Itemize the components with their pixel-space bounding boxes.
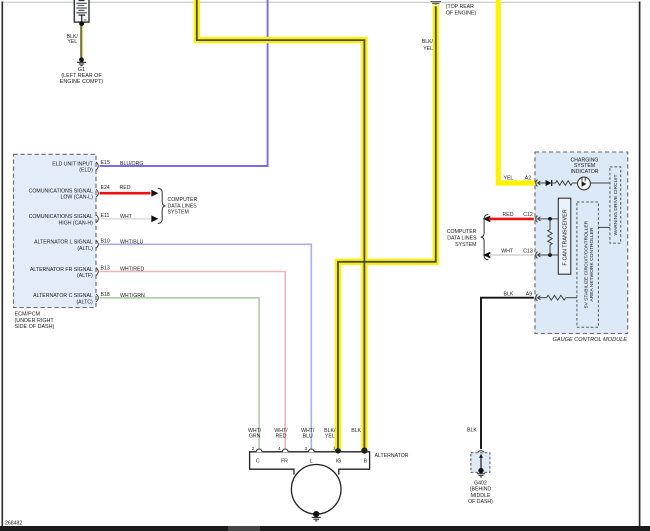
pin B13 (alternator FR signal)	[30, 266, 145, 280]
junction dot at alternator IG pin	[335, 448, 340, 453]
5V stabilizer / CAN controller box	[577, 202, 599, 327]
svg-text:C13: C13	[523, 249, 533, 255]
highlighted wire BLK/YEL: top ground down, left, to alternator IG pin (yellow highlight band)	[338, 4, 436, 450]
svg-text:WHT/BLU: WHT/BLU	[120, 239, 144, 245]
svg-text:ELD UNIT INPUT: ELD UNIT INPUT	[52, 161, 93, 167]
svg-text:IG: IG	[336, 459, 341, 465]
wire WHT (CAN-H) to computer data lines with arrow	[483, 252, 491, 259]
gauge control module box	[535, 152, 628, 334]
wire inside G402 box with up arrow	[480, 456, 482, 471]
svg-text:C: C	[256, 459, 260, 465]
ground G402	[477, 474, 485, 477]
svg-text:RED: RED	[503, 212, 514, 218]
alternator circle	[291, 465, 341, 515]
PART: alternator	[248, 428, 409, 521]
connector bump B	[361, 449, 367, 452]
PART: gauge	[447, 152, 628, 449]
resistor (A9 ground path)	[547, 295, 566, 300]
svg-text:DATA LINES: DATA LINES	[447, 236, 477, 242]
svg-text:B13: B13	[101, 266, 110, 272]
wire WHT/RED from B13 to alternator FR pin	[100, 272, 286, 451]
ground G402 dot	[478, 468, 483, 473]
svg-text:ALTERNATOR C SIGNAL: ALTERNATOR C SIGNAL	[33, 293, 93, 299]
svg-text:(ALTF): (ALTF)	[77, 273, 93, 279]
svg-text:B18: B18	[101, 292, 110, 298]
svg-text:G402: G402	[474, 480, 487, 486]
junction dot at alternator B pin	[361, 448, 367, 454]
PART: highlight	[197, 0, 535, 454]
PART: ecm	[14, 154, 198, 330]
svg-text:COMPUTER: COMPUTER	[447, 229, 477, 235]
svg-text:2: 2	[252, 446, 255, 451]
resistor (indicator series)	[556, 181, 573, 186]
highlighted wire YEL: top edge down to gauge module pin A2 (yellow highlight band)	[498, 0, 534, 183]
page left border	[1, 2, 3, 527]
wire BLK/YEL core (IG path)	[338, 4, 436, 449]
svg-text:E15: E15	[101, 160, 110, 166]
svg-text:DATA LINES: DATA LINES	[168, 203, 198, 209]
svg-text:G1: G1	[78, 67, 85, 73]
page bottom black bar	[0, 526, 650, 531]
svg-text:WARNING DRIVE CIRCUIT: WARNING DRIVE CIRCUIT	[613, 175, 619, 236]
pin C12 connector	[536, 216, 538, 223]
svg-text:BLK/: BLK/	[422, 39, 434, 45]
wire BLK core (B path)	[197, 0, 365, 449]
junction dot C12 row	[548, 217, 552, 221]
pin C13 connector	[536, 252, 538, 259]
svg-text:WHT/GRN: WHT/GRN	[120, 293, 145, 299]
pin A9 connector	[536, 294, 538, 301]
svg-text:268482: 268482	[5, 521, 22, 527]
wire WHT/GRN from B18 to alternator C pin	[100, 298, 260, 450]
alternator case ground dot	[313, 511, 319, 517]
G402 connector box	[471, 453, 490, 473]
warning drive circuit box	[610, 167, 621, 243]
pin B10 (alternator L signal)	[34, 238, 143, 252]
ECM/PCM module box	[14, 154, 97, 307]
ground G1	[79, 57, 84, 62]
connector notch on BLK/YEL wire below top ground	[433, 5, 439, 7]
pin E15 (ELD unit input)	[52, 160, 143, 174]
page right border	[639, 2, 641, 527]
svg-text:5V STABILIZE CIRCUIT/CONTROLLE: 5V STABILIZE CIRCUIT/CONTROLLER	[584, 220, 590, 308]
alternator case ground	[312, 517, 321, 521]
svg-text:BLK: BLK	[504, 292, 514, 298]
svg-text:ENGINE COMPT): ENGINE COMPT)	[60, 79, 104, 85]
F-CAN transceiver box	[558, 198, 571, 274]
svg-text:GAUGE CONTROL MODULE: GAUGE CONTROL MODULE	[553, 337, 628, 343]
PART: g402	[446, 4, 493, 505]
svg-text:YEL: YEL	[325, 433, 335, 439]
wire WHT/BLU from B10 to alternator L pin	[100, 244, 312, 450]
connector bump FR	[282, 449, 288, 452]
link 5V box to warning drive circuit	[598, 226, 610, 228]
svg-text:C12: C12	[523, 212, 533, 218]
svg-text:(ELD): (ELD)	[79, 168, 93, 174]
svg-text:BLU/ORG: BLU/ORG	[120, 161, 143, 167]
svg-text:FR: FR	[281, 459, 288, 465]
svg-text:WHT: WHT	[501, 249, 514, 255]
connector bump L	[308, 449, 314, 452]
svg-text:BLU: BLU	[303, 433, 313, 439]
computer data lines system brace (left)	[158, 188, 166, 223]
svg-text:BLK: BLK	[351, 428, 361, 434]
svg-text:ALTERNATOR: ALTERNATOR	[375, 453, 409, 459]
alternator box	[250, 452, 370, 475]
svg-text:F-CAN TRANSCEIVER: F-CAN TRANSCEIVER	[562, 209, 568, 265]
svg-text:YEL: YEL	[504, 176, 514, 182]
svg-text:MIDDLE: MIDDLE	[471, 493, 491, 499]
svg-text:RED: RED	[276, 433, 287, 439]
svg-text:(UNDER RIGHT: (UNDER RIGHT	[15, 318, 55, 324]
fuse symbol inside box	[79, 14, 86, 16]
svg-text:AREA NETWORK CONTROLLER: AREA NETWORK CONTROLLER	[589, 227, 595, 302]
connector at G402	[478, 451, 484, 453]
svg-text:E24: E24	[101, 185, 110, 191]
svg-text:SIDE OF DASH): SIDE OF DASH)	[15, 324, 55, 330]
wire RED (CAN-L) to computer data lines with arrow	[483, 216, 491, 223]
svg-text:BLK: BLK	[467, 428, 477, 434]
ground at top rear of engine (for BLK/YEL wire)	[431, 2, 441, 4]
svg-text:L: L	[310, 459, 313, 465]
computer data lines system brace (right)	[481, 215, 489, 260]
svg-text:HIGH (CAN-H): HIGH (CAN-H)	[59, 220, 94, 226]
svg-text:ECM/PCM: ECM/PCM	[15, 312, 41, 318]
charging indicator lamp	[578, 177, 591, 190]
svg-text:OF ENGINE): OF ENGINE)	[446, 10, 477, 16]
svg-text:YEL: YEL	[67, 39, 77, 45]
svg-text:OF DASH): OF DASH)	[468, 499, 493, 505]
svg-text:INDICATOR: INDICATOR	[570, 169, 598, 175]
svg-text:A9: A9	[526, 292, 532, 298]
svg-text:(ALTL): (ALTL)	[77, 246, 93, 252]
svg-text:LOW (CAN-L): LOW (CAN-L)	[61, 195, 94, 201]
junction dot below fuse box	[79, 21, 84, 26]
wire BLK from A9 to G402 corner	[481, 298, 534, 449]
svg-text:COMUNICATIONS SIGNAL: COMUNICATIONS SIGNAL	[29, 189, 93, 195]
svg-text:A2: A2	[525, 176, 531, 182]
page top border	[2, 1, 640, 3]
pin B18 (alternator C signal)	[33, 292, 145, 306]
svg-text:3: 3	[304, 446, 307, 451]
svg-text:B10: B10	[101, 238, 110, 244]
connector bump C	[256, 449, 262, 452]
svg-text:4: 4	[278, 446, 281, 451]
pin A2 connector	[536, 180, 538, 187]
svg-text:RED: RED	[120, 185, 131, 191]
highlighted wire BLK: alternator B pin up, left, to top edge (yellow highlight band)	[197, 0, 365, 450]
svg-text:ALTERNATOR FR SIGNAL: ALTERNATOR FR SIGNAL	[30, 267, 93, 273]
svg-text:(ALTC): (ALTC)	[76, 299, 93, 305]
svg-text:(BEHIND: (BEHIND	[470, 487, 492, 493]
resistor between C12 and C13 (CAN termination)	[548, 219, 552, 255]
svg-text:WHT/RED: WHT/RED	[120, 267, 144, 273]
PART: fusebox	[60, 0, 104, 85]
wire RED (CAN-L) with arrow to computer data lines system	[100, 192, 151, 195]
wire BLK/YEL from fuse box to ground G1	[80, 26, 82, 58]
junction dot C13 row	[548, 253, 552, 257]
svg-text:B: B	[364, 459, 368, 465]
svg-text:GRN: GRN	[249, 433, 261, 439]
under-hood fuse/relay box (cut off at top edge)	[74, 0, 89, 22]
svg-text:ALTERNATOR L SIGNAL: ALTERNATOR L SIGNAL	[34, 240, 93, 246]
svg-text:SYSTEM: SYSTEM	[168, 209, 189, 215]
svg-text:(TOP REAR: (TOP REAR	[446, 4, 474, 10]
wire inside module A2 to indicator	[538, 182, 546, 184]
PART: wires-light	[100, 0, 312, 450]
svg-text:SYSTEM: SYSTEM	[455, 242, 476, 248]
pin E11 (communications signal high CAN-H)	[29, 213, 133, 227]
svg-text:YEL: YEL	[423, 46, 433, 52]
svg-text:COMPUTER: COMPUTER	[168, 197, 198, 203]
connector bump IG	[335, 449, 341, 452]
pin E24 (communications signal low CAN-L)	[29, 185, 131, 201]
diode D	[546, 180, 552, 186]
wire BLU/ORG from ELD unit input E15 up to top edge	[100, 0, 268, 166]
svg-text:COMUNICATIONS SIGNAL: COMUNICATIONS SIGNAL	[29, 214, 93, 220]
wire WHT (CAN-H) with arrow	[100, 218, 151, 220]
